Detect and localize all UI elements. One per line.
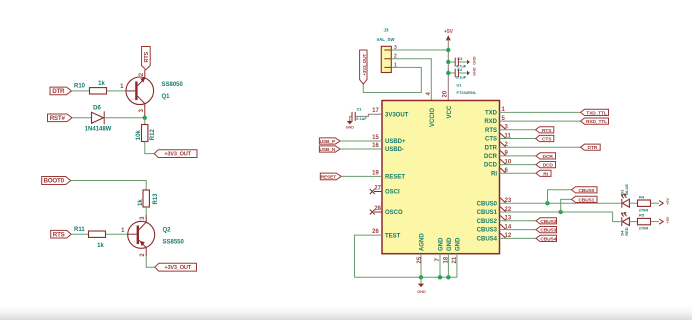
LED D4 <box>622 213 630 227</box>
svg-text:+3V3_OUT: +3V3_OUT <box>164 152 191 158</box>
svg-text:R11: R11 <box>74 227 85 233</box>
power +5V arrow upper <box>659 198 670 206</box>
svg-text:USB_P: USB_P <box>320 139 336 145</box>
svg-text:CBUS0: CBUS0 <box>477 201 498 207</box>
svg-text:10k: 10k <box>136 130 142 141</box>
svg-text:CBUS3: CBUS3 <box>540 228 556 234</box>
capacitor C1 0.1uF <box>350 107 368 122</box>
svg-text:DCR: DCR <box>484 154 498 160</box>
pin 25 AGND <box>420 254 422 278</box>
junction GND 18 <box>446 275 450 279</box>
net label DTR <box>50 87 72 95</box>
wire CBUS4 to tag <box>500 237 537 239</box>
svg-text:28: 28 <box>374 206 381 212</box>
wire R12 to +3V3_OUT <box>145 142 154 154</box>
pin 7 GND <box>439 254 441 278</box>
svg-text:GND: GND <box>473 67 477 76</box>
power flag +3V3_OUT lower <box>155 263 197 271</box>
junction GND 7 <box>438 275 442 279</box>
wire CBUS2 to tag <box>500 220 537 222</box>
svg-text:DCD: DCD <box>484 163 498 169</box>
bottom band (video gradient) <box>0 303 692 320</box>
net label RESET <box>320 173 341 180</box>
svg-text:VCCIO: VCCIO <box>430 108 436 127</box>
svg-text:CBUS1: CBUS1 <box>578 197 594 203</box>
net label DCD <box>536 162 556 168</box>
net label RXD_TTL <box>581 118 609 124</box>
svg-text:3V3OUT: 3V3OUT <box>385 112 409 118</box>
pin 21 GND <box>456 254 458 278</box>
net label CTS <box>536 135 554 141</box>
wire USB_N to pin 16 <box>340 148 382 150</box>
svg-text:27: 27 <box>374 186 381 192</box>
svg-text:DTR: DTR <box>588 145 598 151</box>
wire CBUS1 to LED D4 <box>500 212 621 222</box>
svg-text:17: 17 <box>372 108 379 114</box>
svg-text:USBD+: USBD+ <box>385 139 406 145</box>
wire CBUS0 to LED D3 <box>500 202 621 204</box>
svg-text:USBD-: USBD- <box>385 147 404 153</box>
svg-text:R5: R5 <box>639 213 645 218</box>
svg-text:VAL_SW: VAL_SW <box>377 37 396 42</box>
capacitor C3 4.7uF <box>450 56 466 69</box>
wire DCR to DCR tag <box>500 155 537 157</box>
capacitor C2 0.1uF <box>450 67 466 80</box>
junction +5V / J3 <box>446 48 450 52</box>
pin 17 3V3OUT <box>360 114 383 116</box>
net label USB_N <box>319 146 340 152</box>
svg-text:VCC: VCC <box>447 105 453 118</box>
svg-text:RST#: RST# <box>50 115 66 122</box>
IC U1 FT232RNL body <box>382 101 500 254</box>
svg-text:TXD_TTL: TXD_TTL <box>586 110 607 116</box>
ground GND right of C3 <box>467 56 477 65</box>
wire junction to R12 <box>144 118 146 125</box>
wire CTS to CTS tag <box>500 138 536 140</box>
svg-text:R12: R12 <box>150 129 156 141</box>
resistor R11 1k <box>74 227 106 249</box>
svg-text:GND: GND <box>346 126 355 130</box>
svg-text:GND: GND <box>447 237 453 251</box>
svg-text:+3V3_OUT: +3V3_OUT <box>362 54 367 76</box>
svg-text:19: 19 <box>372 170 379 176</box>
wire DTR to DTR tag <box>500 146 581 148</box>
svg-text:C2: C2 <box>457 67 463 72</box>
wire +5V down to VCC pin 20 <box>447 39 449 100</box>
net label CBUS2 <box>536 218 557 224</box>
resistor R4 270R <box>638 194 651 212</box>
svg-text:1k: 1k <box>138 199 144 206</box>
svg-text:R4: R4 <box>639 194 645 199</box>
power flag +3V3_OUT <box>154 150 197 158</box>
wire CBUS3 to tag <box>500 229 537 231</box>
svg-text:+5V: +5V <box>666 216 670 223</box>
svg-text:0.1uF: 0.1uF <box>456 75 467 80</box>
svg-text:1N4148W: 1N4148W <box>85 127 112 133</box>
wire J3 pin2 to VCCIO pin4 <box>391 59 431 100</box>
svg-text:OSCI: OSCI <box>385 190 400 196</box>
wire DTR to R10 <box>72 90 90 92</box>
svg-text:+3V3_OUT: +3V3_OUT <box>164 265 191 271</box>
wire J3 pin3 to +5V rail <box>391 49 448 51</box>
svg-text:DTR: DTR <box>52 88 65 95</box>
svg-text:DCD: DCD <box>543 163 554 169</box>
pin 18 GND <box>447 254 449 278</box>
transistor Q1 SS8050 <box>126 70 184 118</box>
connector J3 VAL_SW <box>377 28 396 73</box>
ground rail wire <box>355 276 457 278</box>
wire R13 to Q2 <box>145 207 147 215</box>
LED D3 <box>622 194 630 207</box>
wire RTS to RTS tag <box>500 129 536 131</box>
svg-text:1k: 1k <box>97 243 104 249</box>
svg-text:RTS: RTS <box>53 231 65 238</box>
net label CBUS1 <box>572 196 598 202</box>
net label USB_P <box>319 138 340 144</box>
wire RST# to D6 <box>72 117 91 119</box>
svg-text:SS8050: SS8050 <box>162 82 184 88</box>
svg-text:U1: U1 <box>457 83 463 88</box>
wire RESET to pin 19 <box>341 175 382 177</box>
pin 27 OSCI (nc) <box>374 191 382 193</box>
net label RST# <box>48 114 73 122</box>
net label CBUS3 <box>536 227 557 233</box>
net label TXD_TTL <box>581 109 609 115</box>
net label DTR <box>581 144 601 150</box>
power flag +3V3_OUT vertical <box>360 50 367 84</box>
svg-text:RXD_TTL: RXD_TTL <box>586 119 607 125</box>
power +5V arrow lower <box>659 216 670 224</box>
net label CBUS0 <box>572 187 598 193</box>
svg-text:GND: GND <box>473 56 477 65</box>
svg-text:RESET: RESET <box>385 175 405 181</box>
wire J3 pin1 to +3V3_OUT <box>363 67 421 92</box>
svg-text:CBUS3: CBUS3 <box>477 228 498 234</box>
svg-text:OSCO: OSCO <box>385 210 403 216</box>
svg-text:SS8550: SS8550 <box>163 240 185 246</box>
wire D3 to R4 <box>629 202 637 204</box>
junction AGND <box>419 275 423 279</box>
wire TXD to TXD_TTL tag <box>500 111 581 113</box>
wire BOOT0 to R13 <box>71 181 147 191</box>
wire RTS to R11 <box>71 233 88 235</box>
net label RTS lower <box>51 230 71 238</box>
net label CBUS4 <box>536 235 557 241</box>
svg-text:270R: 270R <box>639 226 649 231</box>
svg-text:USB_N: USB_N <box>319 147 335 153</box>
svg-text:26: 26 <box>372 229 379 235</box>
svg-text:RESET: RESET <box>321 175 337 181</box>
junction +5V / C2 <box>446 71 450 75</box>
svg-text:Q1: Q1 <box>162 94 171 100</box>
resistor R5 270R <box>638 213 651 231</box>
svg-text:RI: RI <box>543 171 548 177</box>
svg-text:C3: C3 <box>457 56 463 61</box>
wire Q2 to +3V3_OUT <box>146 256 155 267</box>
wire D6 to junction <box>105 117 145 119</box>
svg-text:15: 15 <box>372 135 379 141</box>
ground GND symbol <box>417 277 426 294</box>
svg-text:GND: GND <box>417 290 426 294</box>
svg-text:CBUS4: CBUS4 <box>540 236 556 242</box>
svg-text:TXD: TXD <box>485 111 498 117</box>
svg-text:C1: C1 <box>357 107 363 112</box>
svg-text:RTS: RTS <box>542 128 552 134</box>
net label RI <box>536 170 551 176</box>
svg-text:DTR: DTR <box>485 145 498 151</box>
svg-text:18: 18 <box>443 256 449 263</box>
wire R5 to +5V <box>651 221 660 223</box>
wire CBUS0 branch to tag <box>548 190 572 203</box>
pin 28 OSCO (nc) <box>374 211 382 213</box>
net label RTS <box>536 127 554 133</box>
svg-text:Q2: Q2 <box>163 228 172 234</box>
wire R4 to +5V <box>651 202 660 204</box>
wire RXD to RXD_TTL tag <box>500 120 581 122</box>
svg-text:RI: RI <box>491 171 497 177</box>
pin 26 TEST <box>355 235 383 277</box>
ground GND right of C2 <box>467 67 477 76</box>
svg-text:+5V: +5V <box>666 198 670 205</box>
svg-text:GND: GND <box>438 237 444 251</box>
svg-text:CBUS2: CBUS2 <box>540 219 556 225</box>
svg-text:CTS: CTS <box>542 137 552 143</box>
wire R10 to Q1 base <box>107 90 128 92</box>
svg-text:CBUS4: CBUS4 <box>477 237 498 243</box>
svg-text:CTS: CTS <box>485 137 497 143</box>
svg-text:1k: 1k <box>98 81 105 87</box>
resistor R13 1k <box>138 190 159 207</box>
wire USB_P to pin 15 <box>340 140 382 142</box>
svg-text:RTS: RTS <box>144 51 150 62</box>
diode D6 1N4148W <box>85 106 112 133</box>
svg-text:FT232RNL: FT232RNL <box>457 90 477 95</box>
svg-text:BOOT0: BOOT0 <box>44 178 65 185</box>
svg-text:RXD: RXD <box>484 119 497 125</box>
svg-text:RED: RED <box>624 227 629 236</box>
svg-text:270R: 270R <box>639 207 649 212</box>
svg-text:BLUE: BLUE <box>624 184 629 195</box>
net label BOOT0 <box>42 177 71 185</box>
ground GND below C1 <box>346 121 355 130</box>
junction node Q1 emitter <box>143 116 147 120</box>
svg-text:25: 25 <box>417 256 423 263</box>
svg-text:RTS: RTS <box>485 128 497 134</box>
wire D4 to R5 <box>629 221 637 223</box>
svg-text:D6: D6 <box>93 106 101 112</box>
svg-text:R10: R10 <box>74 83 86 89</box>
svg-text:21: 21 <box>452 256 458 263</box>
svg-text:20: 20 <box>443 90 449 97</box>
transistor Q2 SS8550 <box>128 215 185 256</box>
junction CBUS1 <box>559 210 563 214</box>
junction CBUS0 <box>545 201 549 205</box>
wire R11 to Q2 base <box>106 233 129 235</box>
svg-text:16: 16 <box>372 143 379 149</box>
resistor R10 <box>74 81 107 94</box>
svg-text:R13: R13 <box>153 193 159 205</box>
resistor R12 10k <box>136 125 156 142</box>
svg-text:TEST: TEST <box>385 233 401 239</box>
svg-text:CBUS1: CBUS1 <box>477 210 498 216</box>
net label DCR <box>536 153 556 159</box>
svg-text:J3: J3 <box>384 28 389 33</box>
svg-text:CBUS0: CBUS0 <box>578 188 594 194</box>
svg-text:DCR: DCR <box>543 154 554 160</box>
svg-text:AGND: AGND <box>419 233 425 251</box>
svg-text:GND: GND <box>455 237 461 251</box>
svg-text:0.1uF: 0.1uF <box>356 116 367 121</box>
svg-text:+5V: +5V <box>444 29 454 35</box>
power +5V <box>444 29 454 40</box>
wire RI to RI tag <box>500 172 537 174</box>
wire CBUS1 branch to tag <box>561 199 572 212</box>
svg-text:CBUS2: CBUS2 <box>477 219 498 225</box>
net label RTS (vertical) <box>142 47 151 70</box>
wire DCD to DCD tag <box>500 164 537 166</box>
junction +5V / C3 <box>446 60 450 64</box>
